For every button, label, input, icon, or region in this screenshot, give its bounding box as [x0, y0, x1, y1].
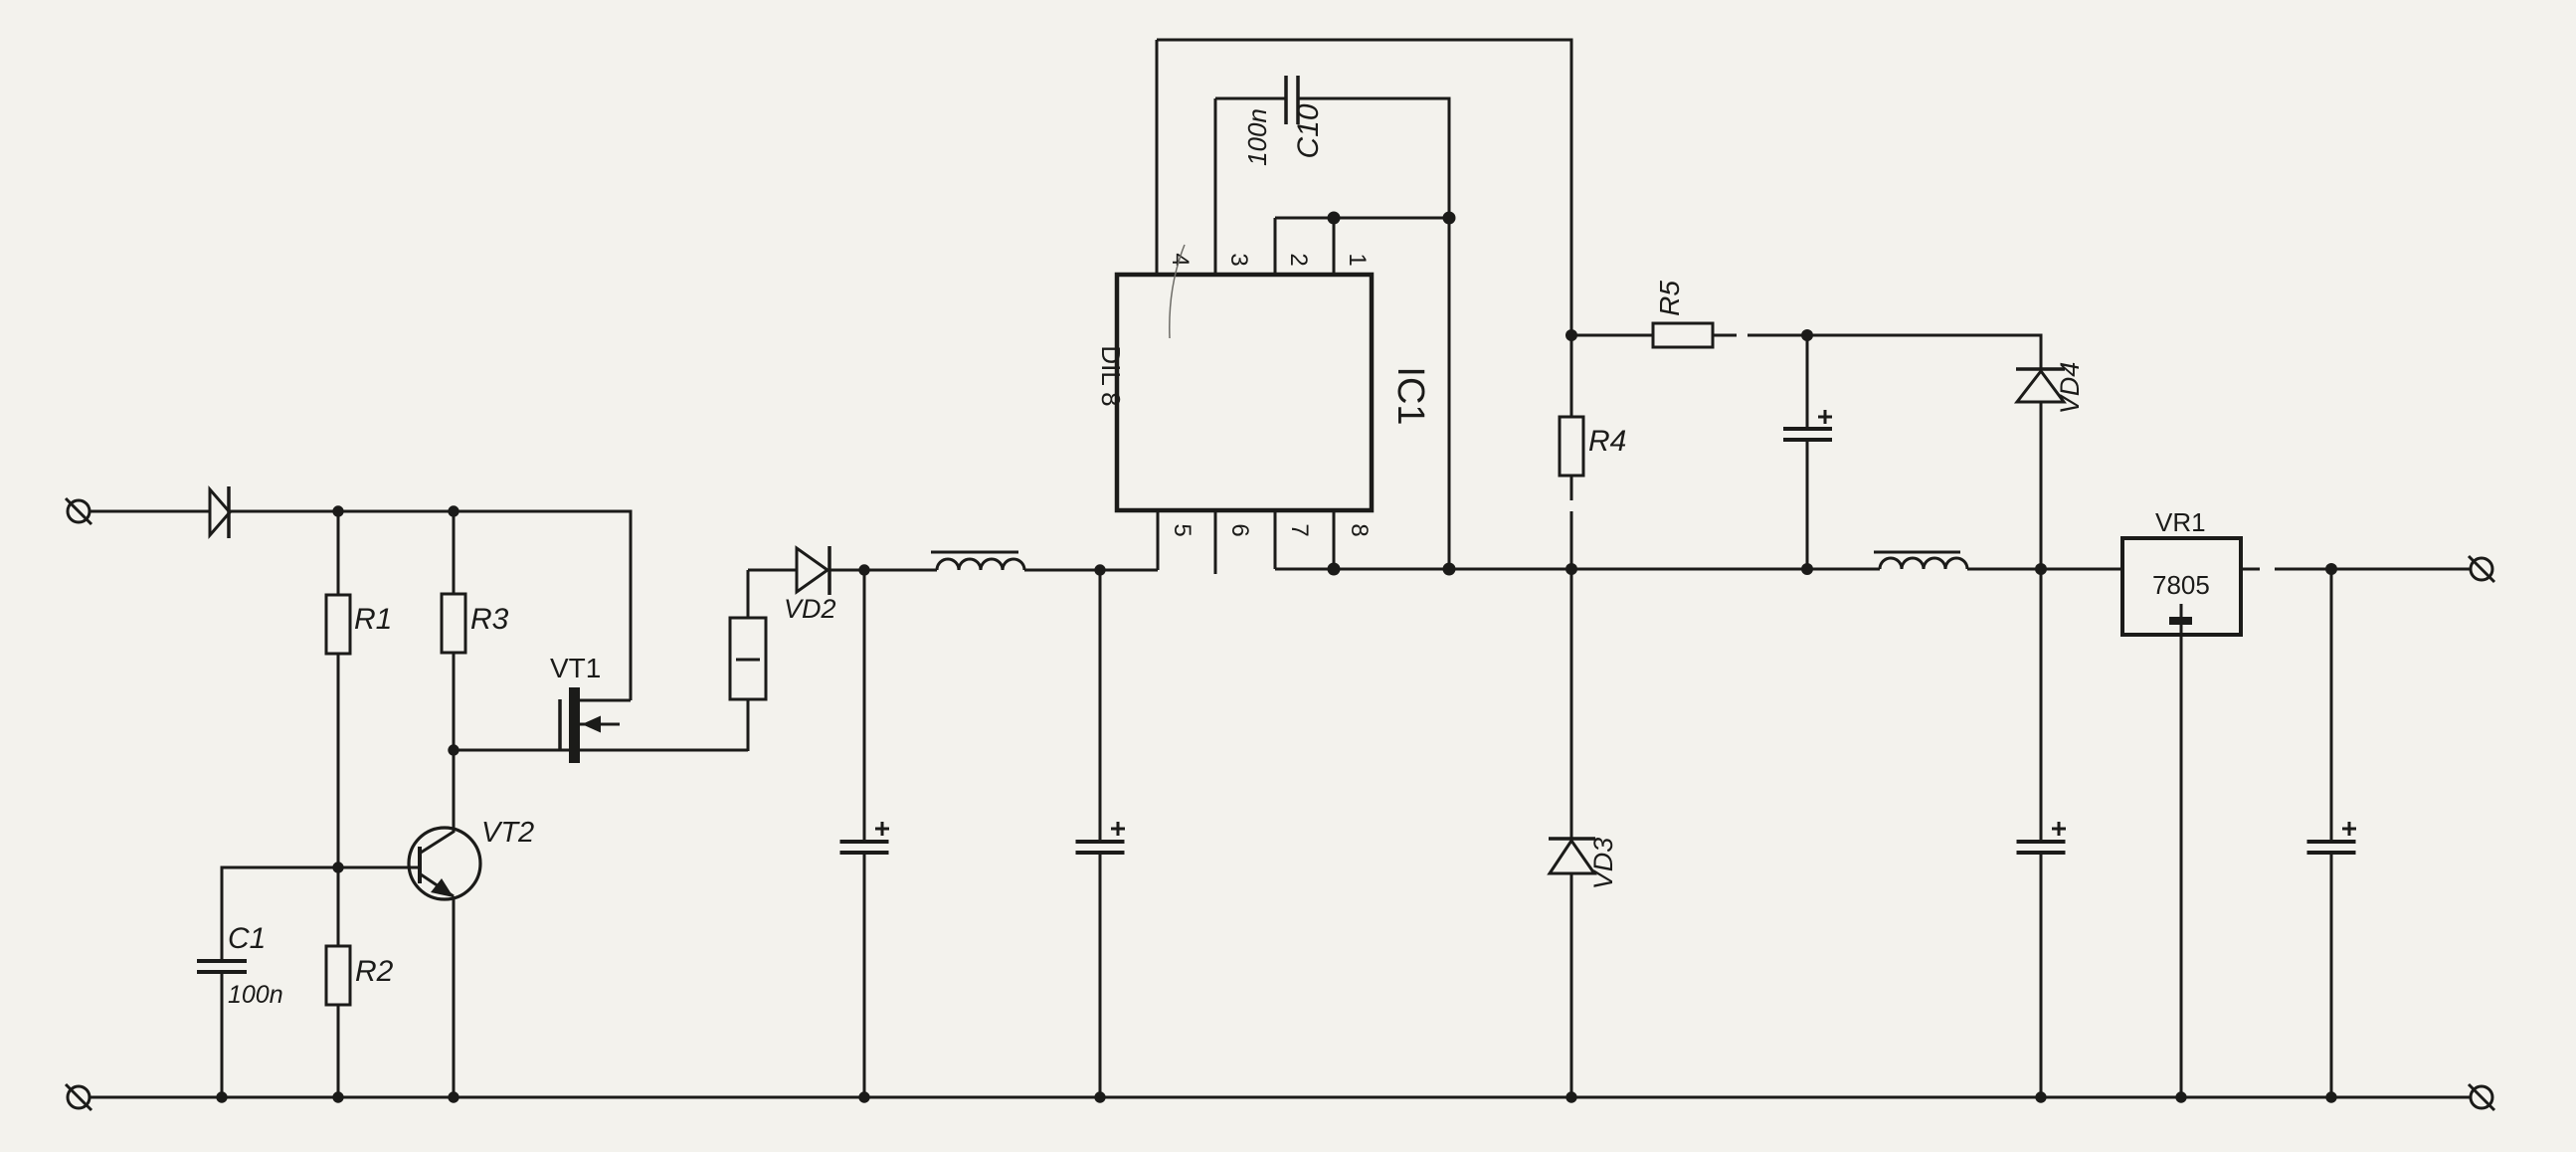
pin 1 lead	[1333, 218, 1336, 275]
wire: gap to mid rail	[1570, 511, 1573, 569]
node A (top of R1)	[332, 505, 343, 516]
wire: node L to VD4 corner	[1807, 335, 2041, 369]
wire: node A down to R1	[337, 511, 340, 595]
node L (C4 top junction)	[1801, 329, 1813, 341]
wire: L2 to VR1	[1967, 568, 2122, 571]
svg-text:VT2: VT2	[481, 817, 534, 849]
node V (VD3 on rail)	[1565, 1091, 1576, 1102]
fuse FU1	[730, 618, 766, 699]
pin 5 lead	[1157, 510, 1160, 570]
node W (C5 on rail)	[2035, 1091, 2046, 1102]
node Q (C1 on rail)	[216, 1091, 227, 1102]
wire: node D to inductor L1	[864, 569, 937, 572]
svg-text:IC1: IC1	[1389, 366, 1431, 425]
bottom rail (0 V)	[90, 1096, 2471, 1099]
wire: R3 to node C	[453, 653, 456, 750]
IC IC1 (DIL 8 body)	[1117, 275, 1372, 510]
wire: node C to VT1 gate	[454, 749, 748, 752]
svg-text:100n: 100n	[228, 981, 283, 1009]
input terminal (+ in)	[66, 498, 92, 524]
svg-text:3: 3	[1225, 253, 1252, 266]
wire: node K down to R4	[1570, 335, 1573, 417]
svg-text:C1: C1	[228, 922, 266, 955]
regulator VR1	[2122, 538, 2241, 635]
inductor L2	[1874, 552, 1967, 569]
node G (pin1 junction)	[1328, 212, 1341, 225]
svg-text:DIL 8: DIL 8	[1096, 345, 1126, 406]
capacitor C1	[197, 961, 247, 1097]
node X (VR1 gnd on rail)	[2175, 1091, 2186, 1102]
resistor R4	[1560, 417, 1583, 476]
svg-text:C10: C10	[1292, 103, 1325, 158]
svg-text:7805: 7805	[2152, 570, 2210, 600]
capacitor C10	[1286, 76, 1298, 124]
capacitor C2 (electrolytic after VD2)	[840, 570, 890, 1097]
wire: C10 to down corner	[1298, 98, 1449, 218]
capacitor C3 (electrolytic after L1)	[1076, 570, 1126, 1097]
node I (pin 8 junction)	[1328, 563, 1341, 576]
node M (R4 on mid rail)	[1565, 563, 1577, 575]
transistor VT1 (p-MOSFET)	[560, 687, 631, 763]
wire: pin 2 to pin 1 to riser (y 219)	[1275, 217, 1449, 220]
wire: base node horizontal (C1 to VT2 base)	[222, 867, 420, 960]
svg-text:6: 6	[1226, 523, 1253, 536]
diode VD1 (input series diode)	[210, 486, 230, 538]
wire: VT1 source up to fuse	[747, 699, 750, 751]
node J (C10 riser on mid rail)	[1443, 563, 1456, 576]
svg-text:VD4: VD4	[2055, 362, 2085, 415]
ground terminal (- out)	[2469, 1084, 2494, 1110]
resistor R5	[1653, 323, 1713, 347]
node Y (C6 on rail)	[2325, 1091, 2336, 1102]
svg-text:100n: 100n	[1242, 108, 1272, 166]
wire: node B to VT1 drain corner	[454, 511, 631, 700]
svg-text:R3: R3	[470, 603, 509, 636]
wire: R2 to bottom rail	[337, 1005, 340, 1097]
wire: R5 to gap	[1713, 334, 1737, 337]
node R (R2 on rail)	[332, 1091, 343, 1102]
output terminal (+ out)	[2469, 556, 2494, 582]
svg-text:8: 8	[1346, 523, 1373, 536]
wire: pin 3 to C10	[1215, 97, 1286, 100]
scan artifact curve near IC corner	[1170, 245, 1185, 338]
wire: VR1 out to gap	[2241, 568, 2260, 571]
svg-text:VD3: VD3	[1588, 838, 1618, 890]
node D	[858, 564, 869, 575]
resistor R1	[326, 595, 350, 654]
wire: L1 to node E	[1024, 569, 1100, 572]
node K (R5/R4 branch)	[1565, 329, 1577, 341]
transistor VT2 (NPN)	[409, 750, 480, 1097]
pin 3 lead	[1214, 98, 1217, 275]
diode VD2	[797, 546, 829, 595]
wire: fuse up to VD2 level	[747, 570, 750, 618]
pin 8 lead	[1333, 510, 1336, 569]
pin 6 lead (unconnected stub)	[1214, 510, 1217, 574]
wire: node A to node B	[338, 510, 454, 513]
diode VD4	[2016, 369, 2065, 569]
wire: mid rail pin7 to VR1 (left part)	[1275, 568, 1880, 571]
node F (R1/R2/base junction)	[332, 862, 343, 872]
diode VD3	[1549, 569, 1595, 1097]
pin 4 lead	[1156, 40, 1159, 275]
svg-text:VT1: VT1	[550, 653, 601, 683]
wire: input terminal to diode	[90, 510, 210, 513]
node P (C6 top junction)	[2325, 563, 2337, 575]
node B (top of R3)	[448, 505, 459, 516]
inductor L1	[931, 552, 1024, 570]
wire: gap to node P	[2275, 568, 2331, 571]
wire: riser down to mid rail	[1448, 218, 1451, 569]
svg-text:VR1: VR1	[2155, 507, 2206, 537]
capacitor C6 (electrolytic at output)	[2307, 569, 2357, 1097]
svg-text:1: 1	[1344, 253, 1371, 266]
wire: node B down to R3	[453, 511, 456, 594]
node S (VT2 emitter on rail)	[448, 1091, 459, 1102]
VR1 ground pin	[2169, 604, 2192, 1097]
svg-text:5: 5	[1169, 523, 1196, 536]
wire: node E to IC1 pin 5	[1100, 569, 1158, 572]
wire: node F down to R2	[337, 867, 340, 946]
capacitor C5 (electrolytic before VR1)	[2017, 569, 2067, 1097]
wire: diode to node A	[230, 510, 338, 513]
node N (C4 on mid rail)	[1801, 563, 1813, 575]
node T (C2 on rail)	[858, 1091, 869, 1102]
resistor R3	[442, 594, 465, 653]
wire: top rail pin4 to R5 branch	[1157, 40, 1571, 335]
node E	[1094, 564, 1105, 575]
wire: gap to node L	[1748, 334, 1807, 337]
node H (C10 riser junction)	[1443, 212, 1456, 225]
capacitor C4 (after R5)	[1783, 335, 1832, 569]
svg-text:VD2: VD2	[784, 594, 836, 624]
svg-text:2: 2	[1285, 253, 1312, 266]
pin 7 lead	[1274, 510, 1277, 569]
svg-text:R4: R4	[1588, 425, 1626, 458]
wire: node P to output terminal	[2331, 568, 2471, 571]
ground terminal (- in)	[66, 1084, 92, 1110]
node C (gate node)	[448, 744, 459, 755]
wire: corner to VD2 anode	[748, 569, 797, 572]
node U (C3 on rail)	[1094, 1091, 1105, 1102]
svg-text:7: 7	[1286, 523, 1313, 536]
svg-text:R2: R2	[355, 955, 394, 988]
pin 2 lead	[1274, 218, 1277, 275]
svg-text:R5: R5	[1654, 281, 1685, 316]
wire: R4 to gap	[1570, 476, 1573, 500]
resistor R2	[326, 946, 350, 1005]
svg-text:R1: R1	[354, 603, 392, 636]
node O (VD4 on mid rail)	[2035, 563, 2047, 575]
wire: VD2 to node D	[829, 569, 864, 572]
wire: node K to R5	[1571, 334, 1653, 337]
wire: R1 to base node	[337, 654, 340, 867]
